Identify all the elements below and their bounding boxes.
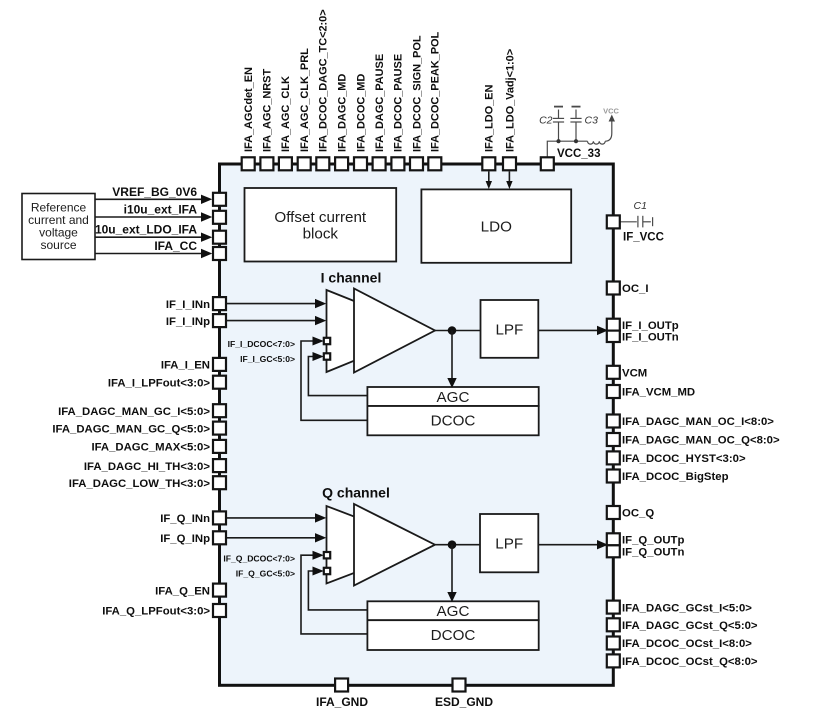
svg-text:IF_Q_OUTp: IF_Q_OUTp bbox=[622, 535, 684, 547]
svg-text:IF_Q_OUTn: IF_Q_OUTn bbox=[622, 547, 684, 559]
svg-text:i10u_ext_IFA: i10u_ext_IFA bbox=[124, 203, 198, 217]
svg-text:IF_Q_DCOC<7:0>: IF_Q_DCOC<7:0> bbox=[223, 554, 295, 564]
svg-text:IF_Q_INp: IF_Q_INp bbox=[160, 533, 210, 545]
svg-text:IFA_DCOC_SIGN_POL: IFA_DCOC_SIGN_POL bbox=[411, 35, 423, 152]
svg-text:IFA_I_LPFout<3:0>: IFA_I_LPFout<3:0> bbox=[108, 377, 210, 389]
svg-text:IFA_DAGC_MAN_OC_I<8:0>: IFA_DAGC_MAN_OC_I<8:0> bbox=[622, 416, 774, 428]
svg-text:IFA_DAGC_LOW_TH<3:0>: IFA_DAGC_LOW_TH<3:0> bbox=[69, 478, 211, 490]
svg-text:IFA_VCM_MD: IFA_VCM_MD bbox=[622, 387, 695, 399]
svg-text:IFA_DAGC_MAX<5:0>: IFA_DAGC_MAX<5:0> bbox=[91, 442, 210, 454]
svg-text:IF_I_GC<5:0>: IF_I_GC<5:0> bbox=[240, 354, 295, 364]
svg-text:IFA_LDO_EN: IFA_LDO_EN bbox=[484, 85, 496, 152]
svg-text:C3: C3 bbox=[585, 115, 599, 127]
svg-text:IFA_DAGC_MD: IFA_DAGC_MD bbox=[336, 74, 348, 152]
svg-text:IFA_Q_EN: IFA_Q_EN bbox=[155, 585, 210, 597]
svg-text:VREF_BG_0V6: VREF_BG_0V6 bbox=[112, 185, 197, 199]
svg-text:IF_I_OUTp: IF_I_OUTp bbox=[622, 320, 679, 332]
svg-text:IFA_DCOC_OCst_Q<8:0>: IFA_DCOC_OCst_Q<8:0> bbox=[622, 656, 758, 668]
svg-text:VCC: VCC bbox=[603, 107, 619, 116]
svg-text:IFA_DCOC_HYST<3:0>: IFA_DCOC_HYST<3:0> bbox=[622, 453, 746, 465]
svg-text:VCC_33: VCC_33 bbox=[557, 148, 600, 160]
svg-text:10u_ext_LDO_IFA: 10u_ext_LDO_IFA bbox=[95, 223, 197, 237]
svg-text:IF_Q_INn: IF_Q_INn bbox=[160, 513, 210, 525]
svg-text:IFA_CC: IFA_CC bbox=[154, 239, 197, 253]
svg-text:IFA_DAGC_HI_TH<3:0>: IFA_DAGC_HI_TH<3:0> bbox=[84, 461, 210, 473]
svg-text:C1: C1 bbox=[634, 200, 647, 212]
svg-text:source: source bbox=[40, 238, 76, 252]
svg-text:IFA_AGC_CLK_PRL: IFA_AGC_CLK_PRL bbox=[299, 48, 311, 152]
svg-text:IFA_Q_LPFout<3:0>: IFA_Q_LPFout<3:0> bbox=[102, 606, 210, 618]
svg-text:IF_I_INn: IF_I_INn bbox=[166, 299, 210, 311]
svg-text:IFA_LDO_Vadj<1:0>: IFA_LDO_Vadj<1:0> bbox=[504, 49, 516, 152]
svg-text:IF_I_OUTn: IF_I_OUTn bbox=[622, 331, 679, 343]
svg-text:IFA_I_EN: IFA_I_EN bbox=[161, 360, 210, 372]
svg-text:OC_I: OC_I bbox=[622, 283, 648, 295]
svg-text:ESD_GND: ESD_GND bbox=[435, 695, 493, 709]
svg-text:IFA_DCOC_DAGC_TC<2:0>: IFA_DCOC_DAGC_TC<2:0> bbox=[318, 9, 330, 152]
svg-text:IF_Q_GC<5:0>: IF_Q_GC<5:0> bbox=[236, 568, 295, 578]
svg-text:DCOC: DCOC bbox=[431, 413, 476, 430]
svg-text:IFA_DCOC_MD: IFA_DCOC_MD bbox=[355, 74, 367, 152]
svg-text:OC_Q: OC_Q bbox=[622, 508, 654, 520]
svg-text:I channel: I channel bbox=[321, 270, 382, 286]
svg-text:LDO: LDO bbox=[481, 219, 512, 236]
svg-text:AGC: AGC bbox=[437, 389, 470, 406]
svg-text:IFA_DCOC_PAUSE: IFA_DCOC_PAUSE bbox=[393, 54, 405, 152]
svg-text:IFA_AGC_NRST: IFA_AGC_NRST bbox=[262, 69, 274, 152]
svg-text:IFA_DAGC_PAUSE: IFA_DAGC_PAUSE bbox=[374, 54, 386, 152]
svg-text:Offset current: Offset current bbox=[274, 209, 367, 226]
svg-text:Q channel: Q channel bbox=[322, 485, 390, 501]
svg-text:IF_I_DCOC<7:0>: IF_I_DCOC<7:0> bbox=[228, 339, 295, 349]
svg-text:IFA_DCOC_PEAK_POL: IFA_DCOC_PEAK_POL bbox=[430, 31, 442, 152]
svg-text:IF_I_INp: IF_I_INp bbox=[166, 316, 210, 328]
svg-text:IFA_DCOC_OCst_I<8:0>: IFA_DCOC_OCst_I<8:0> bbox=[622, 638, 752, 650]
svg-text:AGC: AGC bbox=[437, 603, 470, 620]
svg-text:IFA_DCOC_BigStep: IFA_DCOC_BigStep bbox=[622, 471, 729, 483]
svg-text:LPF: LPF bbox=[495, 536, 523, 553]
svg-text:IFA_GND: IFA_GND bbox=[316, 695, 368, 709]
svg-text:IFA_DAGC_MAN_GC_Q<5:0>: IFA_DAGC_MAN_GC_Q<5:0> bbox=[52, 423, 210, 435]
svg-text:VCM: VCM bbox=[622, 368, 647, 380]
svg-text:IF_VCC: IF_VCC bbox=[623, 232, 664, 244]
svg-text:DCOC: DCOC bbox=[431, 627, 476, 644]
svg-text:IFA_AGCdet_EN: IFA_AGCdet_EN bbox=[243, 67, 255, 152]
svg-text:block: block bbox=[303, 226, 339, 243]
svg-text:C2: C2 bbox=[539, 115, 553, 127]
svg-text:LPF: LPF bbox=[495, 322, 523, 339]
svg-text:IFA_DAGC_MAN_OC_Q<8:0>: IFA_DAGC_MAN_OC_Q<8:0> bbox=[622, 435, 780, 447]
svg-text:IFA_DAGC_GCst_Q<5:0>: IFA_DAGC_GCst_Q<5:0> bbox=[622, 620, 758, 632]
svg-text:IFA_AGC_CLK: IFA_AGC_CLK bbox=[280, 76, 292, 152]
svg-text:IFA_DAGC_MAN_GC_I<5:0>: IFA_DAGC_MAN_GC_I<5:0> bbox=[58, 406, 210, 418]
svg-text:IFA_DAGC_GCst_I<5:0>: IFA_DAGC_GCst_I<5:0> bbox=[622, 602, 752, 614]
